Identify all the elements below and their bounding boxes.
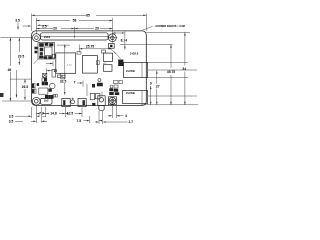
dim 25.75 xyxy=(79,45,111,53)
svg-text:29: 29 xyxy=(95,27,99,31)
svg-text:20.5: 20.5 xyxy=(18,54,25,58)
dim 32.5 xyxy=(64,44,66,95)
DSI connector cluster xyxy=(34,43,55,64)
dim 2.7 xyxy=(95,121,128,123)
mounting hole bottom-left xyxy=(32,97,40,105)
svg-text:4: 4 xyxy=(125,114,127,118)
svg-text:3.5: 3.5 xyxy=(15,19,20,23)
SoC chip xyxy=(56,53,76,73)
rects above HDMI area xyxy=(90,93,100,99)
dim 58 xyxy=(36,20,70,22)
left-bottom cluster xyxy=(32,73,65,98)
AV jack barrel xyxy=(98,96,105,111)
svg-text:- CORNER RADIUS = 3.0M: - CORNER RADIUS = 3.0M xyxy=(154,25,185,28)
extension lines top xyxy=(31,14,33,31)
svg-text:12: 12 xyxy=(54,69,58,73)
svg-text:25.75: 25.75 xyxy=(86,45,94,49)
svg-text:2xUSB: 2xUSB xyxy=(126,69,135,73)
svg-text:2.7: 2.7 xyxy=(129,120,134,124)
svg-text:3.5: 3.5 xyxy=(42,24,47,28)
svg-text:8.14: 8.14 xyxy=(121,39,128,43)
tiny rects above 2x2 header xyxy=(53,94,57,97)
svg-text:45.75: 45.75 xyxy=(167,70,175,74)
dim 3.5 rows bottom-left xyxy=(15,116,47,121)
USB centerline ext pairs xyxy=(148,70,197,97)
svg-text:14.8: 14.8 xyxy=(50,112,57,116)
small bits top-mid xyxy=(77,50,106,64)
dim 85 xyxy=(32,14,86,16)
dim 12 + small arrow above xyxy=(46,62,53,74)
svg-text:3.5: 3.5 xyxy=(9,114,14,118)
left extension lines xyxy=(1,38,33,101)
dark marks below rects xyxy=(92,103,95,106)
USB stack 2 xyxy=(123,91,148,104)
svg-text:26.5: 26.5 xyxy=(22,85,29,89)
right mid cluster xyxy=(97,79,102,87)
dark blob left of USB1 xyxy=(118,60,123,67)
test point circle with stem xyxy=(71,98,75,104)
dim 3.5 top-left outer xyxy=(18,23,30,30)
svg-text:2-Ø2.9: 2-Ø2.9 xyxy=(130,52,139,56)
svg-text:7: 7 xyxy=(74,81,76,85)
RAM chip xyxy=(83,56,98,74)
GPIO header xyxy=(41,33,109,40)
svg-text:3.5: 3.5 xyxy=(9,119,14,123)
svg-text:32.5: 32.5 xyxy=(60,80,67,84)
svg-text:49: 49 xyxy=(8,68,12,72)
dim 7.5 xyxy=(84,120,103,122)
components between USB stacks xyxy=(110,81,123,95)
dim row 7.7 14.8 12.5 xyxy=(36,113,82,115)
svg-text:12.5: 12.5 xyxy=(67,112,74,116)
svg-text:27: 27 xyxy=(156,84,160,88)
svg-text:2xUSB: 2xUSB xyxy=(126,91,135,95)
small chip below top-right hole xyxy=(108,44,114,49)
board outline xyxy=(32,31,147,106)
svg-text:9: 9 xyxy=(150,82,152,86)
left dim lines xyxy=(9,38,11,66)
HDMI connector xyxy=(78,99,86,107)
svg-text:7.5: 7.5 xyxy=(77,119,82,123)
right extension lines xyxy=(141,32,198,105)
svg-text:2x2: 2x2 xyxy=(44,99,49,103)
feature lines xyxy=(57,43,173,46)
corner radius note + leader xyxy=(143,26,153,30)
svg-text:58: 58 xyxy=(73,19,77,23)
svg-text:29: 29 xyxy=(53,27,57,31)
dim 29 29 xyxy=(36,28,53,30)
LAN chip + square xyxy=(103,53,112,71)
mounting hole top-right with crosshair xyxy=(108,33,118,43)
dim 3.5 top (edge to hole) xyxy=(40,24,49,26)
mounting hole top-left xyxy=(33,34,41,42)
svg-text:2x13: 2x13 xyxy=(44,35,50,39)
bottom extension ticks xyxy=(32,106,117,125)
svg-text:7.7: 7.7 xyxy=(39,112,44,116)
svg-text:85: 85 xyxy=(86,13,90,17)
mounting hole bottom-right in square xyxy=(108,97,116,105)
left edge small mark xyxy=(0,93,4,97)
dim 4 xyxy=(108,115,124,117)
USB stack 1 xyxy=(124,62,148,77)
small rects near SoC xyxy=(52,54,65,77)
micro-USB power xyxy=(62,99,70,107)
svg-text:34: 34 xyxy=(182,67,186,71)
right dim lines xyxy=(150,86,152,105)
small header right of bottom-left hole xyxy=(41,98,53,104)
